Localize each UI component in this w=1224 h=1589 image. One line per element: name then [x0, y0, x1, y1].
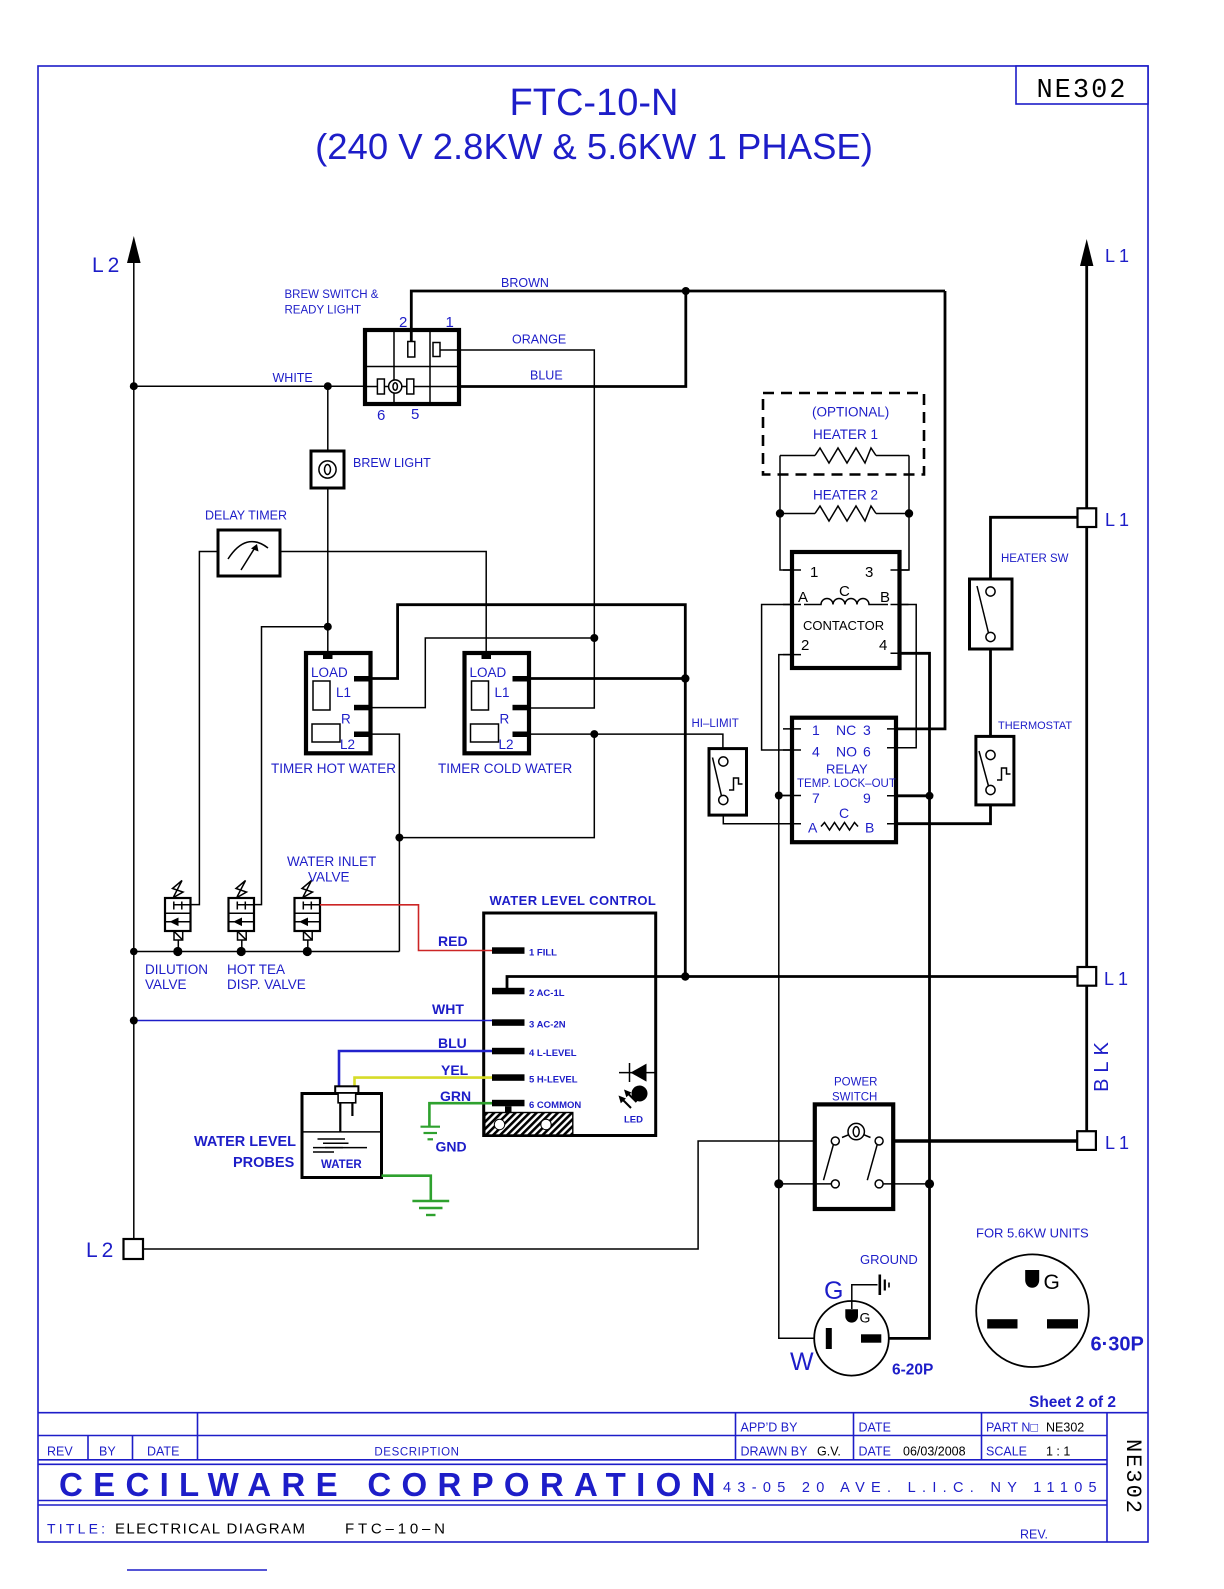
label drawn by g.v. [741, 1445, 841, 1459]
power switch S2 [815, 1077, 893, 1210]
svg-text:HOT TEA: HOT TEA [227, 962, 285, 977]
svg-text:SCALE: SCALE [986, 1445, 1027, 1459]
svg-text:GROUND: GROUND [860, 1252, 918, 1267]
svg-text:4: 4 [812, 744, 820, 760]
svg-text:WATER: WATER [321, 1159, 362, 1171]
svg-text:L1: L1 [1104, 969, 1132, 989]
label title electrical diagram [47, 1521, 449, 1538]
svg-text:VALVE: VALVE [145, 977, 187, 992]
svg-text:L1: L1 [495, 685, 510, 700]
svg-text:NE302: NE302 [1036, 76, 1127, 106]
svg-text:R: R [500, 712, 510, 727]
label scale 1:1 [986, 1445, 1070, 1459]
wire contactor B to relay 6 [896, 605, 916, 748]
wire orange branch to timer hot water R [371, 638, 595, 708]
diode LED indicator [619, 1063, 656, 1126]
svg-text:LED: LED [624, 1115, 643, 1126]
wire L2 left rail [133, 258, 135, 1239]
svg-text:G: G [1044, 1271, 1060, 1294]
svg-text:BLU: BLU [438, 1035, 467, 1051]
svg-text:L2: L2 [340, 737, 355, 752]
svg-text:NE302: NE302 [1120, 1439, 1145, 1515]
node L1 connector lower [1078, 967, 1133, 989]
heater optional dashed box [763, 393, 924, 475]
contactor K1 [783, 552, 909, 668]
svg-text:1: 1 [810, 564, 818, 581]
wire timer cold L2 to hi-limit [529, 730, 723, 749]
svg-text:3 AC-2N: 3 AC-2N [529, 1020, 566, 1031]
ground tank earth [412, 1201, 449, 1215]
wire WHITE [130, 371, 365, 390]
svg-text:GND: GND [436, 1139, 467, 1155]
water level probes tank [302, 1094, 382, 1178]
resistor heater 2 [776, 506, 913, 521]
svg-text:BREW SWITCH &: BREW SWITCH & [285, 289, 379, 301]
svg-text:RELAY: RELAY [826, 762, 868, 777]
wire delay timer right to timer cold water load top [280, 552, 486, 656]
svg-text:LOAD: LOAD [311, 665, 348, 680]
wire AC-1L to L1 connector [507, 972, 1078, 988]
svg-text:REV: REV [47, 1445, 73, 1459]
svg-text:PART N□: PART N□ [986, 1421, 1038, 1435]
terminal strip hatched [485, 1113, 573, 1136]
probe cap [335, 1086, 358, 1132]
wire contactor pin4 to plug right [881, 653, 934, 1338]
wire power switch lower-right [883, 1183, 929, 1185]
svg-text:REV.: REV. [1020, 1528, 1048, 1542]
pin 3 AC-2N [492, 1019, 566, 1030]
wire L2 return branch [395, 734, 594, 842]
svg-text:(OPTIONAL): (OPTIONAL) [812, 405, 889, 420]
svg-text:NE302: NE302 [1046, 1421, 1084, 1435]
svg-text:6: 6 [863, 744, 871, 760]
svg-text:WHT: WHT [432, 1001, 464, 1017]
wire heaters to contactor pins 1 and 3 [780, 456, 909, 571]
svg-text:HEATER 2: HEATER 2 [813, 488, 878, 503]
svg-text:TITLE:: TITLE: [47, 1521, 108, 1537]
svg-text:FOR 5.6KW UNITS: FOR 5.6KW UNITS [976, 1226, 1089, 1241]
svg-text:DRAWN BY: DRAWN BY [741, 1445, 809, 1459]
brew switch S1 [365, 314, 459, 424]
thermostat TH1 [976, 720, 1073, 805]
svg-text:DELAY TIMER: DELAY TIMER [205, 509, 287, 523]
svg-text:WATER INLET: WATER INLET [287, 854, 376, 869]
svg-text:2: 2 [801, 637, 809, 654]
svg-text:APP’D BY: APP’D BY [741, 1421, 799, 1435]
water level control U1 [484, 893, 657, 1136]
svg-text:BREW LIGHT: BREW LIGHT [353, 456, 431, 470]
svg-text:DISP. VALVE: DISP. VALVE [227, 977, 306, 992]
svg-text:LOAD: LOAD [470, 665, 507, 680]
svg-text:PROBES: PROBES [233, 1155, 295, 1171]
wire brew light down to timer hot water load [324, 488, 332, 655]
wire hi-limit to relay A [723, 815, 792, 824]
wire RED fill [320, 905, 492, 951]
svg-text:6 COMMON: 6 COMMON [529, 1100, 581, 1111]
svg-text:G.V.: G.V. [817, 1445, 841, 1459]
svg-text:DATE: DATE [859, 1421, 891, 1435]
svg-text:1 FILL: 1 FILL [529, 948, 557, 959]
svg-text:FTC-10-N: FTC-10-N [510, 82, 679, 124]
wire contactor pin2 to plug white [774, 655, 826, 1339]
mark below frame [127, 1569, 267, 1571]
svg-text:G: G [860, 1310, 871, 1326]
svg-text:B: B [865, 820, 874, 836]
svg-text:WATER LEVEL: WATER LEVEL [194, 1134, 296, 1150]
svg-text:NO: NO [836, 744, 857, 760]
svg-text:4 L-LEVEL: 4 L-LEVEL [529, 1048, 577, 1059]
svg-text:L1: L1 [1105, 246, 1133, 266]
svg-text:GRN: GRN [440, 1088, 471, 1104]
svg-text:L1: L1 [1105, 510, 1133, 530]
svg-text:DATE: DATE [859, 1445, 891, 1459]
svg-text:43-05 20 AVE. L.I.C. NY 11105: 43-05 20 AVE. L.I.C. NY 11105 [723, 1480, 1103, 1496]
pin 6 COMMON [492, 1100, 581, 1114]
svg-text:THERMOSTAT: THERMOSTAT [998, 720, 1072, 732]
svg-text:3: 3 [865, 564, 873, 581]
svg-text:(240 V 2.8KW & 5.6KW 1 PHASE): (240 V 2.8KW & 5.6KW 1 PHASE) [315, 126, 873, 167]
plug 6-30P [976, 1254, 1089, 1367]
svg-text:POWER: POWER [834, 1077, 877, 1089]
part number box NE302 top right [1016, 66, 1148, 106]
svg-text:DILUTION: DILUTION [145, 962, 208, 977]
svg-text:C: C [839, 583, 850, 600]
title block grid [38, 1413, 1148, 1542]
svg-text:C: C [839, 805, 849, 821]
label rev by date description [47, 1445, 460, 1459]
svg-text:06/03/2008: 06/03/2008 [903, 1445, 966, 1459]
wire BLUE [459, 291, 686, 387]
svg-text:2 AC-1L: 2 AC-1L [529, 988, 565, 999]
wire relay 7 stub [779, 795, 792, 797]
svg-text:HEATER 1: HEATER 1 [813, 427, 878, 442]
wire power switch lower-left [779, 1183, 832, 1185]
svg-text:6-20P: 6-20P [892, 1362, 933, 1379]
svg-text:7: 7 [812, 790, 820, 806]
svg-text:HEATER SW: HEATER SW [1001, 553, 1069, 565]
svg-text:WHITE: WHITE [273, 371, 313, 385]
svg-text:1: 1 [446, 314, 454, 331]
svg-text:YEL: YEL [441, 1062, 469, 1078]
svg-text:TEMP. LOCK–OUT: TEMP. LOCK–OUT [797, 778, 896, 790]
svg-text:VALVE: VALVE [308, 870, 350, 885]
wire WHT neutral [130, 1001, 492, 1025]
svg-text:G: G [824, 1277, 843, 1305]
wire ORANGE [440, 333, 598, 709]
wire tank ground [382, 1176, 431, 1200]
svg-text:2: 2 [399, 314, 407, 331]
ground GND at control [421, 1127, 467, 1155]
wire BROWN [411, 276, 945, 342]
svg-text:DATE: DATE [147, 1445, 179, 1459]
svg-text:BLK: BLK [1091, 1036, 1113, 1092]
svg-text:L1: L1 [1105, 1133, 1133, 1153]
svg-text:ORANGE: ORANGE [512, 333, 566, 347]
wire BLU low level [339, 1035, 492, 1086]
svg-text:NC: NC [836, 722, 856, 738]
wire L2 bottom bus [143, 1141, 815, 1249]
lamp brew light [311, 387, 431, 489]
svg-text:WATER LEVEL CONTROL: WATER LEVEL CONTROL [490, 893, 657, 908]
svg-text:A: A [798, 589, 808, 606]
svg-text:1: 1 [812, 722, 820, 738]
wire delay timer left to dilution valve [191, 552, 219, 905]
solenoid water inlet valve V3 [295, 881, 321, 952]
wire power switch to L1 [893, 1139, 1077, 1142]
svg-text:ELECTRICAL DIAGRAM: ELECTRICAL DIAGRAM [115, 1521, 306, 1538]
wire relay 9 stub [896, 794, 930, 797]
junction dots on valve bus [130, 947, 312, 956]
wire valve bus [134, 951, 400, 953]
svg-text:6: 6 [377, 407, 385, 424]
pin 4 L-LEVEL [492, 1048, 577, 1059]
pin 1 FILL [492, 947, 557, 958]
svg-text:5: 5 [411, 406, 419, 423]
svg-text:L2: L2 [86, 1239, 117, 1262]
svg-text:RED: RED [438, 933, 468, 949]
svg-text:SWITCH: SWITCH [832, 1092, 877, 1104]
wire timer hot L2 down to valve bus [371, 734, 400, 951]
svg-text:BROWN: BROWN [501, 276, 549, 290]
resistor heater 1 [780, 448, 909, 463]
svg-text:4: 4 [879, 637, 887, 654]
label date 06/03/2008 [859, 1445, 966, 1459]
svg-text:READY LIGHT: READY LIGHT [285, 305, 361, 317]
node L2 bottom connector [86, 1239, 143, 1262]
switch heater SW [970, 517, 1078, 649]
svg-text:A: A [808, 820, 818, 836]
svg-text:6·30P: 6·30P [1091, 1334, 1144, 1356]
node L2 top arrow [92, 236, 141, 277]
wire branch to hot tea valve [254, 627, 328, 905]
svg-text:B: B [880, 589, 890, 606]
svg-text:FTC–10–N: FTC–10–N [345, 1521, 449, 1538]
svg-text:R: R [341, 712, 351, 727]
wire timer loads thick run [371, 605, 690, 977]
delay timer DT1 [205, 509, 287, 577]
pin 5 H-LEVEL [492, 1074, 578, 1085]
switch hi-limit [692, 718, 747, 815]
wire YEL high level [355, 1062, 493, 1086]
node L1 top arrow [1080, 239, 1133, 266]
svg-text:9: 9 [863, 790, 871, 806]
wire contactor A to relay NO 4 [762, 605, 792, 751]
wire GRN common [429, 1088, 492, 1126]
plug 6-20P [814, 1301, 889, 1376]
timer cold water T2 [438, 653, 572, 776]
svg-text:L1: L1 [336, 685, 351, 700]
svg-text:HI–LIMIT: HI–LIMIT [692, 718, 739, 730]
ground plug earth [852, 1252, 918, 1309]
svg-text:BY: BY [99, 1445, 116, 1459]
svg-text:1 : 1: 1 : 1 [1046, 1445, 1070, 1459]
solenoid dilution valve V1 [165, 881, 191, 952]
svg-text:L2: L2 [499, 737, 514, 752]
solenoid hot tea disp valve V2 [229, 881, 255, 952]
svg-text:3: 3 [863, 722, 871, 738]
pin 2 AC-1L [492, 988, 565, 999]
label part no NE302 [986, 1421, 1084, 1435]
svg-text:CONTACTOR: CONTACTOR [803, 618, 884, 633]
svg-text:TIMER COLD WATER: TIMER COLD WATER [438, 761, 572, 776]
wire L1 right rail [1085, 261, 1088, 1131]
svg-text:Sheet 2 of 2: Sheet 2 of 2 [1029, 1394, 1116, 1411]
wire brown rail to relay NC [896, 291, 945, 729]
timer hot water T1 [271, 653, 396, 776]
svg-text:L2: L2 [92, 254, 123, 277]
wire thermostat to relay B [896, 805, 991, 824]
node L1 connector bottom [1077, 1131, 1133, 1153]
svg-text:DESCRIPTION: DESCRIPTION [374, 1447, 459, 1459]
svg-text:TIMER HOT WATER: TIMER HOT WATER [271, 761, 396, 776]
node L1 connector mid [1078, 508, 1134, 530]
relay temp lock-out RL1 [783, 718, 905, 843]
svg-text:CECILWARE CORPORATION: CECILWARE CORPORATION [59, 1466, 726, 1503]
svg-text:W: W [790, 1348, 814, 1376]
wire heater sw to thermostat [989, 649, 992, 736]
svg-text:BLUE: BLUE [530, 369, 563, 383]
svg-text:5 H-LEVEL: 5 H-LEVEL [529, 1075, 578, 1086]
